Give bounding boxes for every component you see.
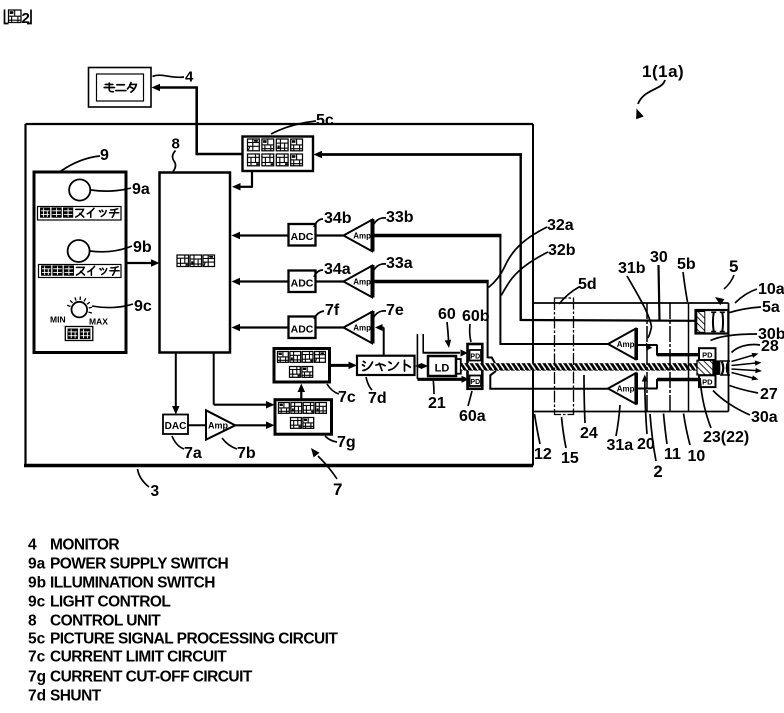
current limit circuit 7c: [274, 349, 330, 383]
svg-text:Amp: Amp: [353, 278, 371, 287]
svg-text:LD: LD: [435, 363, 450, 375]
wire PD 30a to amp 31a: [637, 379, 700, 389]
svg-text:5c: 5c: [316, 112, 334, 129]
label 2: [650, 414, 663, 481]
label 9a: [91, 181, 150, 198]
wire 7g to 7c: [298, 384, 306, 400]
label 7: [311, 448, 342, 499]
label 60a: [459, 391, 486, 425]
DAC 7a: [163, 415, 188, 435]
label 11: [664, 414, 682, 464]
PD housing 60: [468, 344, 483, 389]
svg-text:10a: 10a: [758, 281, 784, 298]
svg-text:4: 4: [28, 537, 37, 554]
wire control unit to current cut-off circuit: [214, 353, 275, 408]
picture signal processing circuit 5c: [243, 137, 314, 172]
illumination switch 9b: [68, 240, 90, 262]
wire 32b: amp 33b to scope amp 31b: [374, 236, 609, 346]
svg-text:PICTURE SIGNAL PROCESSING CIRC: PICTURE SIGNAL PROCESSING CIRCUIT: [50, 631, 338, 648]
switch panel box 9: [34, 172, 126, 353]
label 21: [428, 378, 446, 412]
svg-text:7d: 7d: [368, 390, 387, 407]
label 3: [138, 469, 160, 500]
svg-text:SHUNT: SHUNT: [50, 688, 102, 705]
svg-text:1(1a): 1(1a): [642, 62, 684, 81]
wire ADC 7f - amp 7e: [316, 326, 345, 328]
label 9: [61, 147, 109, 171]
svg-text:12: 12: [534, 446, 552, 463]
amplifier 33b: [344, 219, 373, 252]
svg-text:2: 2: [22, 10, 30, 27]
photodiode 30a at tip: [699, 375, 716, 387]
label 34b: [314, 210, 352, 227]
svg-text:3: 3: [151, 483, 160, 500]
wire 7c to shunt: [330, 362, 358, 370]
svg-text:31b: 31b: [618, 260, 646, 277]
label 27: [730, 386, 778, 404]
wire 5c to control unit: [232, 171, 253, 191]
label 28: [732, 338, 779, 355]
wire amp 7b to current cut-off circuit: [235, 422, 275, 430]
svg-text:7a: 7a: [184, 445, 202, 462]
svg-text:POWER SUPPLY SWITCH: POWER SUPPLY SWITCH: [50, 556, 229, 573]
label 7c: [327, 384, 356, 406]
wire shunt - LD (double arrow): [415, 363, 428, 369]
svg-text:PD: PD: [470, 354, 480, 361]
svg-text:9a: 9a: [132, 181, 150, 198]
svg-text:60: 60: [438, 306, 456, 323]
svg-text:Amp: Amp: [208, 421, 229, 431]
svg-text:30a: 30a: [751, 409, 778, 426]
svg-text:CURRENT CUT-OFF CIRCUIT: CURRENT CUT-OFF CIRCUIT: [50, 669, 253, 686]
label 1(1a): [636, 62, 684, 119]
section line 11: [646, 303, 648, 412]
svg-text:9c: 9c: [28, 594, 46, 611]
amplifier 7e: [344, 311, 373, 344]
laser diode LD 21: [428, 356, 461, 376]
label 5b: [677, 256, 696, 302]
wire shunt to amp 7e: [375, 324, 384, 356]
svg-text:7d: 7d: [28, 688, 46, 705]
svg-text:7e: 7e: [386, 302, 404, 319]
label 7e: [374, 302, 404, 319]
wire 32a: amp 33a to scope amp 31a: [374, 282, 609, 389]
svg-text:20: 20: [637, 436, 655, 453]
wire control unit to DAC: [172, 353, 180, 415]
text 映像信号処理回路: [248, 139, 303, 166]
objective lens 5a: [711, 312, 725, 331]
wire fork to monitor PDs: [417, 334, 469, 383]
label 31b: [618, 260, 652, 351]
amplifier 31b: [608, 328, 636, 360]
svg-text:5b: 5b: [677, 256, 696, 273]
label 7g: [325, 434, 356, 451]
svg-text:34a: 34a: [324, 261, 351, 278]
svg-text:27: 27: [760, 386, 778, 403]
svg-text:MONITOR: MONITOR: [50, 537, 119, 554]
label 7a: [172, 436, 202, 462]
label 5d: [559, 276, 597, 304]
svg-text:5: 5: [729, 257, 738, 276]
svg-text:PD: PD: [702, 351, 713, 360]
svg-text:10: 10: [688, 448, 706, 465]
label 10a: [735, 281, 784, 303]
svg-text:34b: 34b: [324, 210, 352, 227]
svg-text:7: 7: [333, 480, 342, 499]
label box 照明用スイッチ: [39, 265, 122, 278]
svg-text:ADC: ADC: [291, 278, 314, 290]
svg-text:24: 24: [580, 425, 598, 442]
svg-text:28: 28: [761, 338, 779, 355]
svg-text:MAX: MAX: [89, 317, 108, 327]
svg-text:7g: 7g: [337, 434, 356, 451]
illumination lens 27: [720, 361, 730, 375]
legend: [28, 537, 338, 705]
svg-text:9c: 9c: [134, 298, 152, 315]
svg-text:9b: 9b: [28, 575, 46, 592]
svg-text:5c: 5c: [28, 631, 46, 648]
svg-text:11: 11: [664, 446, 681, 463]
label 30a: [713, 391, 778, 427]
label box 調光: [65, 327, 93, 341]
svg-text:DAC: DAC: [165, 421, 187, 432]
svg-text:30: 30: [650, 249, 668, 266]
current cut-off circuit 7g: [275, 400, 332, 435]
label 7d: [366, 377, 387, 407]
label 5a: [728, 299, 780, 316]
svg-text:PD: PD: [702, 378, 713, 387]
label 32a: [489, 217, 574, 288]
wire DAC - amp 7b: [188, 424, 207, 426]
label 8: [172, 136, 180, 172]
label 12: [534, 414, 552, 463]
wire control unit - ADC 7f: [232, 324, 289, 332]
svg-text:8: 8: [28, 613, 37, 630]
figure tag [図2]: [5, 10, 32, 28]
optical fiber 20 (hatched band): [461, 363, 698, 370]
wire 5c to monitor: [152, 84, 244, 156]
svg-text:60a: 60a: [459, 408, 486, 425]
label 7f: [314, 302, 340, 319]
light control knob 9c: [67, 297, 92, 318]
light rays 28: [732, 353, 763, 381]
connector section 5d: [555, 298, 574, 415]
label 30 (image signal line): [650, 249, 668, 321]
svg-text:7g: 7g: [28, 669, 46, 686]
section line distal: [688, 303, 690, 412]
label 7b: [222, 438, 256, 462]
label 10: [684, 414, 706, 466]
wire ADC 34a - amp 33a: [316, 280, 345, 282]
label 23(22): [700, 378, 749, 446]
amplifier 31a: [608, 373, 636, 405]
monitor box 4: [89, 68, 152, 108]
ADC 34a: [289, 271, 316, 293]
section line 10: [669, 303, 671, 412]
svg-text:5a: 5a: [762, 299, 780, 316]
label 30b: [711, 326, 784, 343]
label 60: [438, 306, 456, 348]
photodiode 30b at tip: [699, 348, 716, 360]
wire control unit - ADC 34a: [232, 278, 289, 286]
svg-text:CONTROL UNIT: CONTROL UNIT: [50, 613, 161, 630]
label 33a: [374, 255, 413, 272]
svg-text:Amp: Amp: [617, 385, 635, 394]
svg-text:CURRENT LIMIT CIRCUIT: CURRENT LIMIT CIRCUIT: [50, 649, 227, 666]
label 15: [561, 417, 579, 467]
shunt box 7d: [357, 356, 415, 375]
svg-text:PD: PD: [470, 379, 480, 386]
label 60b: [462, 308, 490, 342]
ADC 34b: [289, 224, 316, 246]
svg-text:32a: 32a: [547, 217, 574, 234]
svg-text:23(22): 23(22): [703, 429, 749, 446]
label 32b: [501, 242, 575, 296]
label 4: [153, 69, 195, 86]
ADC 7f: [289, 317, 316, 339]
svg-text:7b: 7b: [237, 445, 256, 462]
svg-text:21: 21: [428, 395, 446, 412]
label 9c: [92, 298, 152, 315]
wire image signal (30) from scope to 5c: [314, 151, 696, 321]
svg-text:Amp: Amp: [617, 340, 635, 349]
photodiode 60a: [470, 376, 482, 387]
svg-text:ILLUMINATION SWITCH: ILLUMINATION SWITCH: [50, 575, 215, 592]
svg-text:31a: 31a: [607, 437, 634, 454]
svg-text:60b: 60b: [462, 308, 490, 325]
processor enclosure 3: [24, 124, 533, 466]
wire PD 30b to amp 31b: [637, 345, 700, 356]
label 5c: [271, 112, 334, 134]
label 20: [637, 375, 655, 454]
svg-text:8: 8: [172, 136, 180, 153]
phosphor block (hatched) 23: [697, 360, 713, 375]
svg-text:9: 9: [100, 147, 109, 164]
label box 電源用スイッチ: [38, 207, 122, 221]
endoscope body 2: [533, 303, 729, 412]
label 5 (endoscope arrow): [715, 257, 738, 305]
svg-text:Amp: Amp: [353, 324, 371, 333]
svg-text:9a: 9a: [28, 556, 46, 573]
label 24: [580, 375, 598, 442]
text モニタ: [104, 83, 136, 93]
svg-text:ADC: ADC: [291, 324, 314, 336]
label 33b: [374, 209, 414, 226]
image sensor (hatched) in 10a: [697, 312, 705, 333]
svg-text:ADC: ADC: [291, 231, 314, 243]
svg-text:Amp: Amp: [353, 232, 371, 241]
wire panel to control unit: [127, 259, 160, 267]
photodiode 60b: [470, 350, 482, 361]
text 制御部: [177, 255, 215, 267]
svg-text:7c: 7c: [338, 389, 356, 406]
svg-text:7f: 7f: [325, 302, 340, 319]
amplifier 7b: [206, 410, 235, 439]
svg-text:33b: 33b: [386, 209, 414, 226]
wire ADC 34b - amp 33b: [316, 234, 345, 236]
image pickup unit 10a: [696, 310, 729, 334]
svg-text:LIGHT CONTROL: LIGHT CONTROL: [50, 594, 170, 611]
amplifier 33a: [344, 265, 373, 298]
svg-text:4: 4: [185, 69, 194, 86]
svg-text:MIN: MIN: [50, 315, 66, 325]
svg-text:15: 15: [561, 450, 579, 467]
wire control unit - ADC 34b: [232, 232, 289, 240]
label 31a: [607, 405, 634, 454]
svg-text:5d: 5d: [578, 276, 597, 293]
svg-text:9b: 9b: [133, 239, 152, 256]
label 9b: [90, 239, 152, 256]
svg-text:7c: 7c: [28, 649, 46, 666]
control unit box 8: [160, 173, 231, 353]
svg-text:33a: 33a: [386, 255, 413, 272]
svg-text:2: 2: [654, 463, 663, 481]
svg-text:32b: 32b: [548, 242, 576, 259]
phosphor black block 23(22): [713, 360, 720, 375]
label 34a: [314, 261, 351, 278]
power supply switch 9a: [69, 179, 90, 200]
